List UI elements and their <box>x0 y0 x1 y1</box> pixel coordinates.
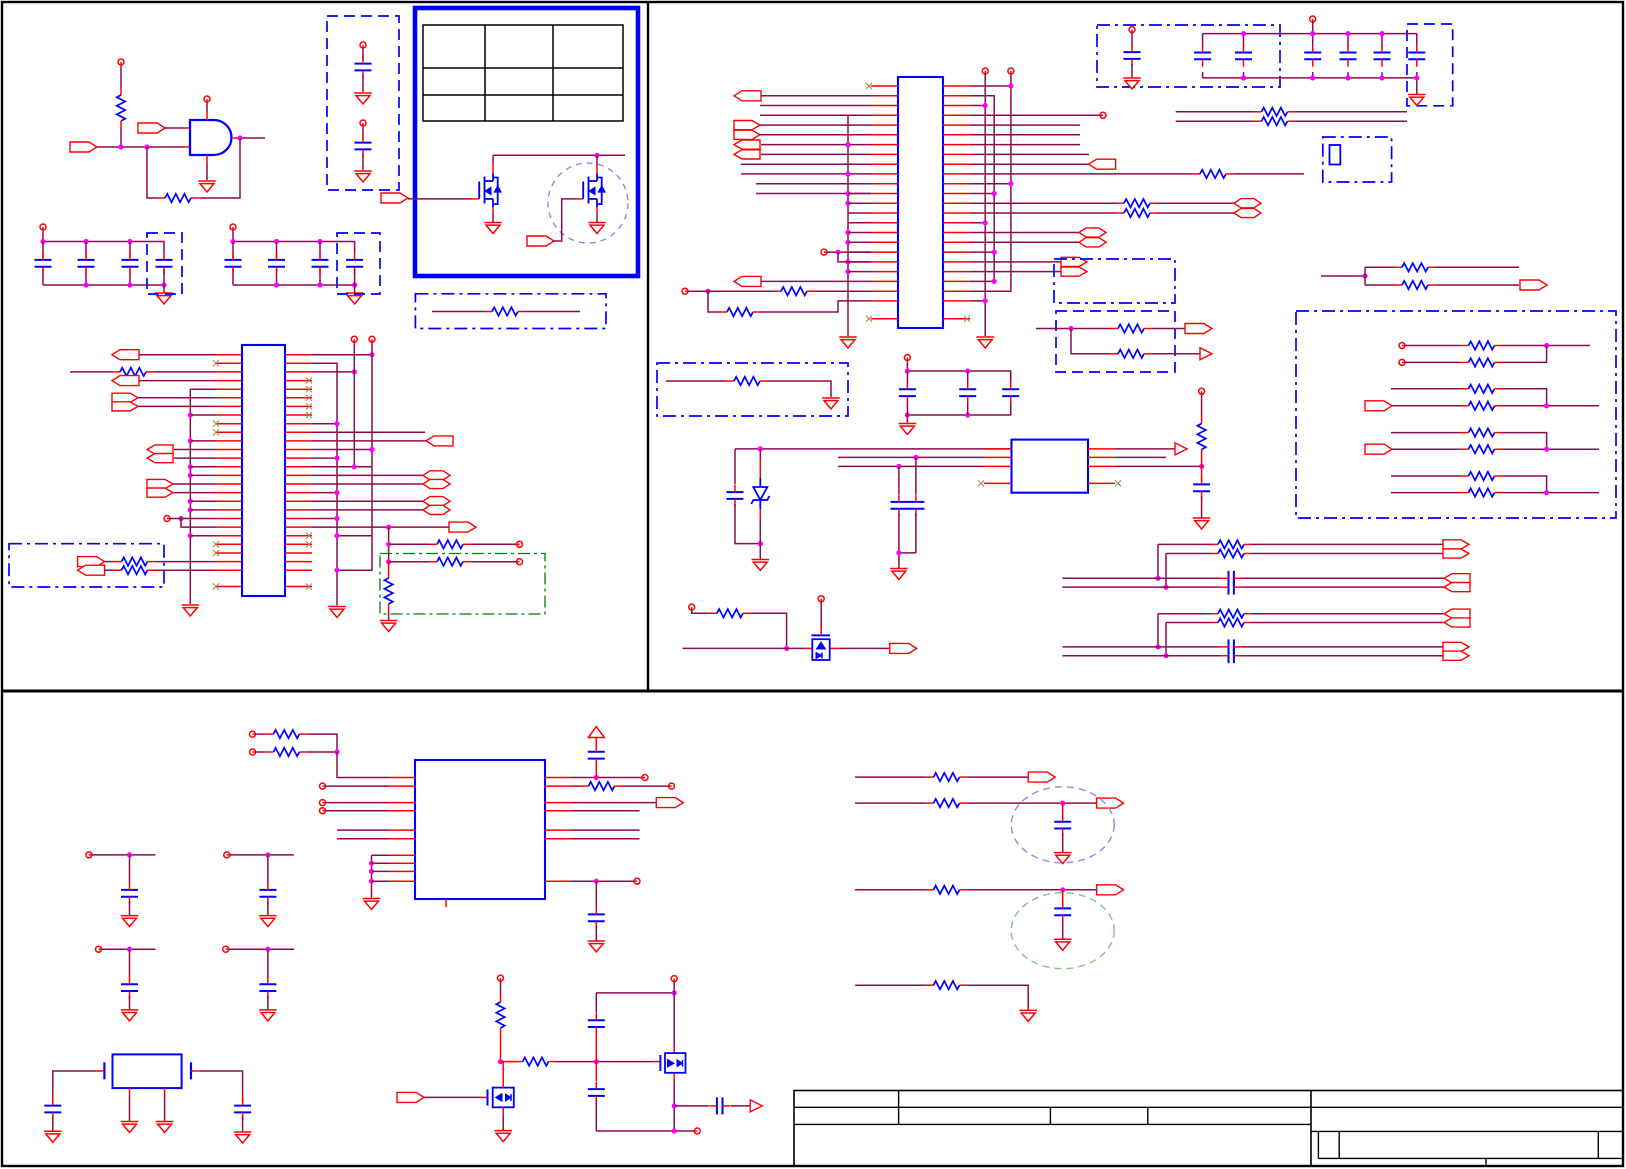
AND gate pin <box>206 155 208 163</box>
dashed group box <box>1056 311 1175 372</box>
terminal <box>821 249 827 255</box>
input port <box>381 193 408 203</box>
resistor R25 <box>1461 428 1503 436</box>
ground <box>346 293 364 304</box>
zener diode D1 <box>751 478 769 509</box>
wire <box>129 996 131 1010</box>
wire <box>838 465 984 467</box>
power terminal P3 <box>360 42 366 49</box>
wire <box>1062 646 1220 648</box>
wire <box>139 354 215 356</box>
power terminal P8 <box>1310 16 1316 22</box>
wire <box>571 777 642 779</box>
wire <box>761 153 871 155</box>
power terminal P18 <box>498 975 504 981</box>
junction <box>965 412 970 417</box>
wire <box>312 509 423 511</box>
wire <box>190 500 215 502</box>
resistor R24 <box>1461 402 1503 410</box>
output port <box>1520 280 1547 290</box>
wire <box>1242 577 1444 579</box>
capacitor C20 <box>1002 382 1019 404</box>
bus port <box>112 393 138 411</box>
junction <box>672 1103 677 1108</box>
wire <box>105 561 114 563</box>
wire bus <box>371 855 373 898</box>
input port <box>70 142 97 152</box>
input port <box>734 91 761 101</box>
wire <box>138 405 215 407</box>
wire <box>967 371 969 415</box>
input port <box>78 557 105 567</box>
wire <box>708 291 719 312</box>
wire <box>206 163 208 180</box>
wire bus <box>312 363 337 605</box>
no-connect <box>213 583 219 589</box>
wire <box>571 810 640 812</box>
wire <box>85 269 87 285</box>
wire <box>526 311 580 313</box>
resistor R17 <box>1394 263 1436 271</box>
power terminal P15 <box>224 852 230 858</box>
no-connect <box>866 316 872 322</box>
wire <box>276 269 278 285</box>
capacitor N2-C <box>1220 639 1242 654</box>
wire <box>1152 353 1200 355</box>
junction <box>983 220 988 225</box>
wire <box>855 889 925 891</box>
no-connect <box>306 533 312 539</box>
wire <box>1391 388 1461 390</box>
ground <box>182 605 200 616</box>
junction <box>992 191 997 196</box>
resistor R36 <box>515 1057 557 1065</box>
junction <box>386 542 391 547</box>
wire <box>1312 22 1314 34</box>
wire <box>471 561 516 563</box>
transistor Q5 <box>660 1053 685 1073</box>
wire <box>1115 465 1202 467</box>
wire <box>174 449 215 451</box>
resistor N1-A <box>1210 540 1252 548</box>
wire <box>761 95 871 97</box>
resistor R19 <box>1110 324 1152 332</box>
wire <box>688 290 773 292</box>
wire <box>1062 577 1220 579</box>
wire bus GND <box>847 115 849 336</box>
power terminal P10 <box>1199 388 1205 394</box>
power terminal P5 <box>40 224 46 231</box>
no-connect <box>306 403 312 409</box>
wire <box>312 431 425 433</box>
wire vertical <box>388 527 390 566</box>
resistor R18 <box>1394 281 1436 289</box>
wire <box>1166 553 1211 555</box>
junction <box>845 230 850 235</box>
junction <box>845 240 850 245</box>
wire <box>595 1062 597 1081</box>
resistor R32 <box>265 730 307 738</box>
wire <box>1115 456 1166 458</box>
capacitor C13 <box>1235 45 1252 67</box>
junction <box>188 533 193 538</box>
power terminal P9 <box>904 355 910 361</box>
wire <box>312 526 449 528</box>
capacitor C19 <box>959 382 976 404</box>
no-connect <box>964 316 970 322</box>
wire <box>1158 613 1211 615</box>
resistor R38 <box>926 981 968 989</box>
wire <box>156 569 216 571</box>
wire <box>1503 405 1600 407</box>
wire rail <box>1203 33 1417 35</box>
wire <box>1165 623 1167 656</box>
wire <box>1503 492 1600 494</box>
wire <box>1062 833 1064 852</box>
junction <box>237 135 242 140</box>
capacitor C11 <box>1124 45 1141 67</box>
wire <box>432 311 484 313</box>
wire rail <box>907 371 1010 383</box>
IC U2 pins <box>215 355 312 587</box>
ground <box>1193 518 1211 529</box>
wire <box>190 466 215 468</box>
wire <box>848 222 871 224</box>
wire <box>138 397 215 399</box>
capacitor C2 <box>355 135 372 157</box>
wire <box>1436 266 1519 268</box>
wire <box>1391 432 1461 434</box>
wire <box>1062 890 1064 906</box>
input port <box>1365 444 1392 454</box>
junction <box>672 990 677 995</box>
ground <box>155 293 173 304</box>
wire <box>1503 389 1547 406</box>
capacitor C30 <box>588 907 605 929</box>
wire <box>855 984 925 986</box>
wire <box>855 776 925 778</box>
junction <box>188 464 193 469</box>
resistor R14 <box>1116 209 1158 217</box>
resistor R16 <box>1254 117 1296 125</box>
wire <box>906 361 908 372</box>
wire <box>190 388 215 390</box>
junction <box>594 879 599 884</box>
resistor R10 <box>773 287 815 295</box>
capacitor N2-D <box>1220 648 1242 663</box>
wire <box>1176 120 1254 122</box>
wire <box>1381 34 1383 78</box>
wire vertical <box>984 74 986 336</box>
wire <box>827 251 871 253</box>
ground <box>752 560 770 571</box>
wire <box>756 183 871 185</box>
terminal <box>320 783 326 789</box>
wire <box>312 483 423 485</box>
resistor R28 <box>1461 488 1503 496</box>
input port <box>734 276 761 286</box>
wire <box>899 457 916 494</box>
wire <box>970 105 985 107</box>
AND gate pin <box>206 112 208 120</box>
resistor R6 <box>114 566 156 574</box>
wire <box>372 862 390 864</box>
no-connect <box>306 395 312 401</box>
resistor R35 <box>496 994 504 1036</box>
wire <box>741 173 871 175</box>
junction <box>369 879 374 884</box>
wire <box>848 251 871 253</box>
wire <box>362 154 364 170</box>
wire <box>759 509 761 544</box>
capacitor C8 <box>268 252 285 274</box>
terminal <box>320 808 326 814</box>
wire <box>389 543 429 545</box>
wire <box>471 543 516 545</box>
junction <box>144 144 149 149</box>
wire <box>741 163 871 165</box>
wire <box>1503 345 1591 347</box>
wire <box>1062 920 1064 939</box>
wire <box>97 1070 105 1072</box>
wire <box>362 75 364 92</box>
junction <box>334 456 339 461</box>
wire <box>242 1117 244 1132</box>
junction <box>1544 490 1549 495</box>
junction <box>758 446 763 451</box>
wire <box>970 212 1116 214</box>
wire <box>761 301 871 312</box>
no-connect <box>306 541 312 547</box>
junction <box>896 464 901 469</box>
wire <box>232 242 234 258</box>
wire <box>139 380 215 382</box>
junction <box>1163 653 1168 658</box>
input port <box>527 236 554 246</box>
junction <box>672 1128 677 1133</box>
wire <box>848 241 871 243</box>
no-connect <box>213 541 219 547</box>
wire <box>1503 448 1600 450</box>
terminal <box>517 541 523 547</box>
wire <box>190 440 215 442</box>
wire <box>362 127 364 139</box>
wire <box>1242 655 1444 657</box>
wire <box>838 456 984 458</box>
bus port <box>1444 609 1470 627</box>
capacitor C6 <box>156 252 173 274</box>
junction <box>188 507 193 512</box>
dash-dot group box <box>1296 311 1616 518</box>
wire <box>1062 803 1064 819</box>
capacitor C21 <box>727 485 744 507</box>
junction <box>1068 326 1073 331</box>
wire <box>554 199 575 241</box>
junction <box>369 447 374 452</box>
capacitor C35 <box>44 1098 61 1120</box>
panel divider horizontal <box>2 690 1623 693</box>
capacitor N1-D <box>1220 580 1242 595</box>
junction <box>118 144 123 149</box>
capacitor C17 <box>1408 45 1425 67</box>
junction <box>705 289 710 294</box>
junction <box>1008 181 1013 186</box>
capacitor C9 <box>312 252 329 274</box>
ground <box>1054 939 1072 950</box>
wire <box>1392 448 1461 450</box>
ground <box>899 424 917 435</box>
wire <box>70 371 112 373</box>
capacitor C38 <box>588 1082 605 1104</box>
terminal <box>1008 68 1014 74</box>
wire <box>768 381 831 397</box>
bus port <box>1443 540 1469 558</box>
wire <box>337 535 372 537</box>
wire <box>1242 586 1444 588</box>
wire <box>652 1061 660 1063</box>
terminal <box>642 775 648 781</box>
wire <box>970 153 1089 155</box>
wire <box>1234 173 1304 175</box>
resistor R9 <box>384 570 392 612</box>
wire <box>761 280 871 282</box>
capacitor C12 <box>1194 45 1211 67</box>
wire <box>595 881 597 909</box>
junction <box>784 646 789 651</box>
output port <box>890 643 917 653</box>
wire <box>1062 655 1220 657</box>
dashed highlight ellipse <box>1011 787 1114 863</box>
junction <box>905 412 910 417</box>
wire <box>1295 111 1407 113</box>
wire <box>206 102 208 112</box>
wire <box>129 901 131 915</box>
capacitor N1-C <box>1220 571 1242 586</box>
wire <box>1295 120 1407 122</box>
junction <box>386 559 391 564</box>
wire <box>1503 476 1547 493</box>
wire <box>354 269 356 293</box>
output port <box>449 522 476 532</box>
wire <box>735 504 760 544</box>
green dash-dot group box <box>380 554 545 615</box>
wire <box>731 1105 751 1107</box>
wire <box>1312 34 1314 78</box>
resistor R3 <box>484 307 526 315</box>
ground <box>354 93 372 104</box>
no-connect <box>306 378 312 384</box>
capacitor C7 <box>225 252 242 274</box>
wire rail <box>907 401 1010 415</box>
dash-dot group box <box>1323 137 1392 182</box>
dashed highlight circle <box>548 163 628 243</box>
wire vertical <box>970 74 1011 291</box>
wire <box>760 134 871 136</box>
input port <box>112 350 139 360</box>
wire <box>1347 34 1349 78</box>
wire <box>1010 371 1012 415</box>
terminal <box>634 878 640 884</box>
output port <box>1175 443 1187 455</box>
resistor R34 <box>581 782 623 790</box>
wire <box>492 207 494 222</box>
power terminal P1 <box>118 59 124 66</box>
ground <box>1408 95 1426 106</box>
wire <box>1201 458 1203 480</box>
wire <box>596 992 674 994</box>
ground <box>121 916 139 927</box>
bus port <box>1061 257 1087 276</box>
ground <box>44 1131 62 1142</box>
wire <box>1176 111 1254 113</box>
wire <box>673 1073 675 1131</box>
junction <box>992 250 997 255</box>
junction <box>1310 31 1315 36</box>
wire <box>42 242 44 258</box>
wire <box>129 949 131 978</box>
wire <box>267 949 269 978</box>
transistor Q1 <box>479 174 501 208</box>
wire <box>337 838 389 840</box>
input port <box>397 1092 424 1102</box>
wire <box>92 854 156 856</box>
junction <box>127 947 132 952</box>
wire <box>312 500 423 502</box>
no-connect <box>213 360 219 366</box>
wire <box>970 241 1079 243</box>
junction <box>265 852 270 857</box>
bidir port <box>423 497 450 515</box>
regulator U4 <box>1012 440 1089 493</box>
wire <box>848 261 871 263</box>
junction <box>274 282 279 287</box>
junction <box>83 239 88 244</box>
wire rail <box>43 231 164 253</box>
dash-dot group box <box>657 363 848 416</box>
wire <box>1416 34 1418 78</box>
no-connect <box>306 386 312 392</box>
junction <box>188 473 193 478</box>
wire <box>174 457 215 459</box>
wire <box>970 134 1080 136</box>
resistor R1 <box>117 87 125 129</box>
junction <box>274 239 279 244</box>
wire <box>595 1100 597 1131</box>
junction <box>1155 576 1160 581</box>
wire <box>1201 496 1203 518</box>
wire <box>267 996 269 1010</box>
wire <box>362 49 364 60</box>
wire <box>52 1117 54 1131</box>
resistor R20 <box>1110 350 1152 358</box>
dashed group box <box>337 233 380 294</box>
resistor R27 <box>1461 472 1503 480</box>
junction <box>161 282 166 287</box>
wire <box>575 198 583 200</box>
wire <box>191 1070 200 1072</box>
wire <box>970 271 1061 273</box>
wire <box>424 1096 488 1098</box>
power flag <box>588 727 604 738</box>
bus port <box>1443 642 1469 660</box>
junction <box>1008 83 1013 88</box>
wire <box>1131 33 1133 47</box>
junction <box>369 869 374 874</box>
resistor R26 <box>1461 445 1503 453</box>
wire <box>1391 492 1461 494</box>
junction <box>334 749 339 754</box>
wire <box>760 114 871 116</box>
